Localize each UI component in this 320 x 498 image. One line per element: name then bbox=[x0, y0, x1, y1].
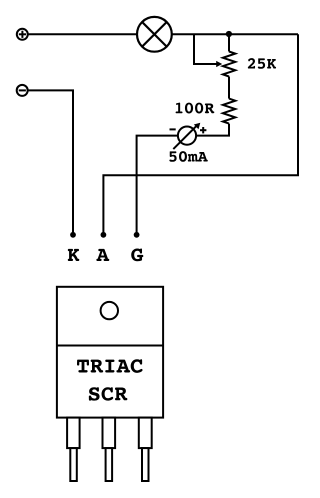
wire: pot to 100R resistor bbox=[228, 77, 230, 99]
label TRIAC bbox=[77, 359, 143, 373]
potentiometer 25K zigzag bbox=[223, 52, 235, 77]
label G bbox=[131, 249, 143, 262]
lamp bbox=[137, 17, 172, 52]
label 50mA bbox=[169, 151, 207, 162]
- supply terminal bbox=[17, 85, 28, 96]
leg 3 wide segment bbox=[139, 418, 152, 449]
leg 3 narrow segment bbox=[142, 448, 149, 481]
+ supply terminal bbox=[17, 29, 28, 40]
ammeter M1 circle bbox=[178, 127, 196, 145]
wire: 100R bottom to meter bbox=[196, 124, 229, 136]
TO-220 mounting hole bbox=[101, 302, 118, 319]
label 100R bbox=[176, 103, 215, 114]
label 25K bbox=[248, 58, 276, 69]
wire: + terminal to lamp bbox=[28, 33, 137, 35]
terminal dot A bbox=[101, 232, 107, 238]
wire: right side down and across to A terminal bbox=[103, 34, 298, 234]
leg 2 narrow segment bbox=[106, 448, 113, 481]
leg 2 wide segment bbox=[103, 418, 116, 449]
wire: - terminal to K terminal bbox=[28, 90, 73, 234]
wire: meter to G terminal bbox=[137, 136, 178, 235]
TO-220 package body bbox=[57, 287, 163, 418]
leg 1 narrow segment bbox=[70, 448, 77, 481]
meter polarity minus bbox=[170, 128, 176, 130]
meter polarity plus bbox=[200, 127, 206, 133]
leg 1 wide segment bbox=[67, 418, 80, 449]
label SCR bbox=[89, 387, 128, 400]
wire: junction down to potentiometer bbox=[228, 34, 230, 51]
label K bbox=[68, 249, 80, 261]
resistor 100R zigzag bbox=[223, 99, 235, 124]
ammeter needle arrow bbox=[173, 123, 200, 149]
wire: lamp to right corner bbox=[172, 33, 298, 35]
junction node dot bbox=[226, 31, 232, 37]
label A bbox=[96, 249, 109, 261]
terminal dot G bbox=[134, 232, 140, 238]
pot wiper arrow bbox=[194, 34, 222, 67]
TO-220 tab divider line bbox=[57, 345, 163, 347]
terminal dot K bbox=[70, 232, 76, 238]
